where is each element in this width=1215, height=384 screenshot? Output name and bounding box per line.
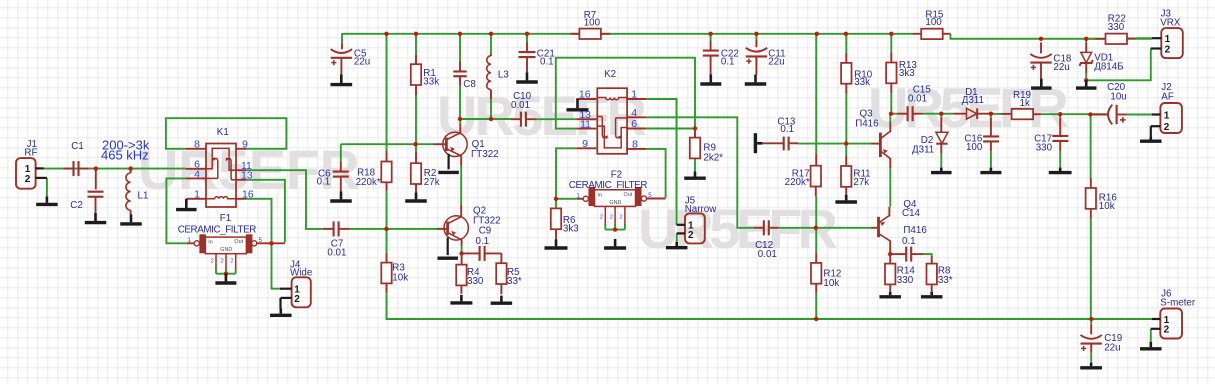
resistor R3 xyxy=(386,253,388,263)
svg-text:2: 2 xyxy=(610,214,613,220)
svg-text:11: 11 xyxy=(580,118,591,130)
svg-text:GND: GND xyxy=(220,247,232,253)
resistor R4 xyxy=(461,253,463,264)
wire VD1 node to J3 pin2 xyxy=(1086,49,1151,81)
node rail C8 xyxy=(458,32,462,36)
wire C22 top xyxy=(710,34,712,41)
ground J6 pin2 xyxy=(1150,342,1153,347)
wire F1 gnd stems green xyxy=(215,268,217,274)
wire C17 top lead xyxy=(1059,114,1061,118)
wire F2 in node xyxy=(556,198,578,200)
svg-text:RF: RF xyxy=(24,148,37,159)
svg-text:33*: 33* xyxy=(938,275,953,286)
svg-text:3k3: 3k3 xyxy=(899,68,915,79)
svg-text:2: 2 xyxy=(25,174,31,185)
wire Q1 emitter to Q2 collector xyxy=(460,166,462,205)
wire C13 to Q3 base xyxy=(798,143,871,145)
node F1 out junction xyxy=(269,241,273,245)
wire R3 top xyxy=(386,229,388,253)
connector J4 xyxy=(292,277,311,307)
node D1 cathode C16 xyxy=(989,112,993,116)
svg-text:465 kHz: 465 kHz xyxy=(101,148,149,163)
svg-text:0.1: 0.1 xyxy=(721,57,735,68)
capacitor C8 xyxy=(459,62,461,72)
svg-text:0.01: 0.01 xyxy=(908,93,927,104)
node rail R17 xyxy=(815,32,819,36)
wire rail top main xyxy=(342,33,913,35)
resistor R7 xyxy=(570,33,579,35)
svg-text:Wide: Wide xyxy=(290,268,313,279)
wire F2 gnd bus xyxy=(605,229,625,231)
transistor Q1 shield pin to ground xyxy=(448,154,450,170)
wire Q3 emitter up xyxy=(889,114,891,123)
resistor R16 xyxy=(1090,178,1092,188)
ground C18 xyxy=(1040,79,1043,87)
resistor R9 xyxy=(694,129,696,138)
connector J6 xyxy=(1160,309,1182,339)
wire Q3 collector to Q4 emitter xyxy=(889,169,891,207)
ground K2 pin16 xyxy=(576,99,579,108)
svg-text:1: 1 xyxy=(631,89,637,101)
wire R1 top xyxy=(415,34,417,54)
capacitor C10 xyxy=(511,118,521,120)
svg-text:220k*: 220k* xyxy=(356,177,381,188)
svg-text:2: 2 xyxy=(221,259,224,265)
transistor Q2 GT322 xyxy=(444,216,468,240)
resistor R19 xyxy=(1001,113,1012,115)
ground C2 xyxy=(94,213,97,221)
wire R17 column xyxy=(815,34,817,154)
ground R11 xyxy=(845,195,848,200)
svg-text:3k3: 3k3 xyxy=(563,223,579,234)
wire C10 to K2 pin13 xyxy=(536,118,576,120)
svg-text:S-meter: S-meter xyxy=(1160,298,1196,309)
node rail C11 xyxy=(754,32,758,36)
wire C19 top lead xyxy=(1090,319,1092,324)
svg-text:Out: Out xyxy=(624,192,633,198)
svg-text:6: 6 xyxy=(631,118,637,130)
svg-text:22u: 22u xyxy=(1053,62,1069,73)
svg-text:33k: 33k xyxy=(423,77,439,88)
resistor R1 xyxy=(415,54,417,64)
svg-text:In: In xyxy=(597,192,602,198)
relay K1 xyxy=(206,144,236,208)
ground J4 pin2 xyxy=(279,309,282,314)
svg-text:10u: 10u xyxy=(1110,92,1126,103)
capacitor C9 xyxy=(462,252,480,254)
svg-text:330: 330 xyxy=(1108,22,1125,33)
svg-text:UR5EFR: UR5EFR xyxy=(437,84,647,147)
svg-text:22u: 22u xyxy=(354,56,370,67)
svg-text:33k: 33k xyxy=(854,77,870,88)
ground R6 xyxy=(555,240,558,247)
wire R10 bottom to base dot xyxy=(845,94,847,144)
wire main input J1-C1-K1 pin6 xyxy=(44,168,186,170)
ground C17 xyxy=(1059,168,1062,171)
resistor R14 xyxy=(889,254,891,264)
ground D2 xyxy=(940,168,943,171)
svg-text:2k2*: 2k2* xyxy=(703,153,723,164)
svg-text:100: 100 xyxy=(584,18,601,29)
svg-text:K2: K2 xyxy=(604,69,616,80)
relay K2 xyxy=(597,88,627,154)
ground VD1 xyxy=(1085,80,1088,86)
svg-text:K1: K1 xyxy=(217,127,229,138)
svg-text:2: 2 xyxy=(688,230,694,241)
wire VD1 top lead xyxy=(1085,39,1087,43)
node F1 gnd junction xyxy=(224,272,228,276)
node F2 in junction R6 xyxy=(554,197,558,201)
ground R14 xyxy=(889,292,892,295)
svg-text:27k: 27k xyxy=(853,177,869,188)
svg-text:L3: L3 xyxy=(498,70,509,81)
connector J1 xyxy=(16,158,36,189)
wire D1 to R19 xyxy=(991,113,1001,115)
svg-text:100: 100 xyxy=(925,17,942,28)
capacitor C1 xyxy=(64,168,74,170)
wire C17 bottom xyxy=(1059,151,1061,168)
wire R17 bottom to Q4 base node xyxy=(815,196,817,228)
ground F1 xyxy=(225,274,228,282)
svg-text:10k: 10k xyxy=(392,272,408,283)
wire K1 pin8 loop to pin9 xyxy=(166,118,287,149)
svg-text:16: 16 xyxy=(579,89,591,101)
ground F2 xyxy=(614,239,617,247)
wire rail step right of R15 xyxy=(951,34,1153,39)
wire R1 bottom to base dot xyxy=(415,95,417,144)
svg-text:0.1: 0.1 xyxy=(476,236,490,247)
wire C8 top xyxy=(459,34,461,62)
svg-text:330: 330 xyxy=(897,275,914,286)
connector J3 xyxy=(1161,28,1183,58)
svg-text:GND: GND xyxy=(609,200,621,206)
node D2 anode xyxy=(939,112,943,116)
wire R16 top xyxy=(1090,115,1092,179)
capacitor C6 xyxy=(340,162,342,172)
node supply C18 xyxy=(1039,37,1043,41)
ground J5 pin2 xyxy=(675,242,678,246)
svg-text:10k: 10k xyxy=(1099,201,1115,212)
svg-text:C1: C1 xyxy=(71,141,84,152)
resistor R5 xyxy=(500,253,502,263)
ground C19 xyxy=(1090,363,1093,367)
svg-text:2: 2 xyxy=(1165,44,1171,55)
wire J1 pin2 to ground xyxy=(46,178,48,197)
wire C19 bottom xyxy=(1090,353,1092,363)
ground J2 pin2 xyxy=(1150,137,1153,140)
ground C6 xyxy=(340,191,343,199)
node Q3 emitter junction C15 xyxy=(889,112,893,116)
wire C15 node leads xyxy=(891,113,898,115)
svg-text:2: 2 xyxy=(620,214,623,220)
wire K1 pin11 to C7 xyxy=(246,170,323,229)
wire C16 bottom xyxy=(990,151,992,168)
node Q1 base junction xyxy=(413,142,417,146)
svg-text:27k: 27k xyxy=(424,177,440,188)
svg-text:F2: F2 xyxy=(611,169,622,180)
capacitor C19 electrolytic xyxy=(1090,324,1092,334)
svg-text:2: 2 xyxy=(600,214,603,220)
node F2 gnd junction xyxy=(613,227,617,231)
wire K2 pin8 to F2 out xyxy=(646,149,665,198)
svg-text:2: 2 xyxy=(294,294,300,305)
wire K2 pin9 down to F2 in xyxy=(556,148,576,199)
diode D2 D311 xyxy=(940,117,942,132)
capacitor C17 xyxy=(1059,118,1061,136)
transistor Q1 GT322 xyxy=(443,132,467,156)
svg-text:2: 2 xyxy=(211,259,214,265)
transistor Q4 P416 xyxy=(871,227,877,229)
wire C8 bottom to node xyxy=(459,86,461,119)
wire R13 bottom to C15 node xyxy=(890,93,892,113)
node C20 junction R16 xyxy=(1088,112,1092,116)
svg-text:Д311: Д311 xyxy=(962,95,984,106)
svg-text:16: 16 xyxy=(242,189,254,201)
node Q2 base junction R18-R3 xyxy=(384,227,388,231)
node C17 junction xyxy=(1058,112,1062,116)
svg-text:13: 13 xyxy=(241,170,253,182)
ground C21 xyxy=(526,73,529,81)
node S-meter line R12 xyxy=(814,317,818,321)
inductor L3 xyxy=(490,54,492,56)
wire D2 anode lead xyxy=(940,114,942,118)
wire R6 top xyxy=(555,199,557,209)
wire C15 to D2 node xyxy=(923,113,942,115)
wire C14 to R8 xyxy=(924,254,932,256)
svg-text:0.1: 0.1 xyxy=(317,177,331,188)
svg-text:2: 2 xyxy=(230,259,233,265)
node Q4 collector junction xyxy=(888,252,892,256)
resistor R15 xyxy=(913,33,922,35)
svg-text:1: 1 xyxy=(194,189,200,201)
wire R22 to J3 pin1 xyxy=(1135,37,1152,39)
svg-text:8: 8 xyxy=(632,139,638,151)
wire K2 pin11 loop over to R9 xyxy=(556,58,695,129)
wire D2 cathode to ground xyxy=(940,154,942,168)
wire R10 top xyxy=(845,34,847,53)
resistor R12 xyxy=(815,253,817,263)
ground C13 sideways xyxy=(754,133,757,153)
ground C16 xyxy=(990,168,993,171)
svg-text:220k*: 220k* xyxy=(785,177,810,188)
capacitor C11 electrolytic xyxy=(755,40,757,47)
wire K2 pin4 to C12 xyxy=(646,117,754,228)
transistor Q3 P416 xyxy=(871,143,879,145)
svg-text:UR5EFR: UR5EFR xyxy=(868,76,1069,139)
svg-text:2: 2 xyxy=(1164,122,1170,133)
ground J1 pin2 xyxy=(46,197,49,203)
svg-text:1: 1 xyxy=(1164,110,1170,121)
ceramic filter F1 xyxy=(205,237,246,254)
resistor R8 xyxy=(931,256,933,264)
ground R5 xyxy=(500,296,503,302)
ceramic filter F2 xyxy=(595,190,636,207)
svg-text:ГТ322: ГТ322 xyxy=(471,149,499,160)
node rail R18 xyxy=(384,32,388,36)
wire F2 gnd stems green xyxy=(604,224,606,230)
ground C22 xyxy=(709,75,712,83)
wire K2 pin6 to R9 node xyxy=(646,128,695,130)
svg-text:9: 9 xyxy=(582,138,588,150)
resistor R18 xyxy=(386,151,388,162)
svg-text:F1: F1 xyxy=(220,213,231,224)
svg-text:In: In xyxy=(208,240,213,246)
capacitor C15 xyxy=(898,113,908,115)
wire R18 bottom to Q2 base node xyxy=(386,191,388,229)
connector J2 xyxy=(1160,103,1182,133)
capacitor C7 xyxy=(323,228,333,230)
node rail L3 xyxy=(489,32,493,36)
wire R12 top xyxy=(815,228,817,253)
svg-text:10k: 10k xyxy=(823,278,839,289)
resistor R22 xyxy=(1095,38,1105,40)
wire F1 gnd bus xyxy=(216,273,236,275)
wire R9 bottom xyxy=(694,159,696,172)
wire rail corner to C5 xyxy=(341,33,343,43)
svg-text:C9: C9 xyxy=(479,226,492,237)
resistor R10 xyxy=(845,53,847,63)
node supply VD1 xyxy=(1084,37,1088,41)
wire C20 to J2 pin1 xyxy=(1127,114,1153,116)
wire K1 pin4 to F1 in xyxy=(166,178,186,243)
relay K1 internal contacts xyxy=(206,148,236,198)
capacitor C22 xyxy=(710,41,712,51)
ground R9 xyxy=(694,172,697,177)
svg-text:330: 330 xyxy=(467,276,484,287)
svg-text:П416: П416 xyxy=(855,119,879,130)
svg-text:4: 4 xyxy=(194,168,200,180)
resistor R2 xyxy=(415,152,417,164)
svg-text:VRX: VRX xyxy=(1160,17,1181,28)
node K2 pin6 R9 junction xyxy=(693,126,697,130)
wire J5 pin2 ground drop xyxy=(676,233,678,242)
resistor R13 xyxy=(890,53,892,63)
wire L3 bottom to node xyxy=(490,100,492,119)
node rail R10 xyxy=(844,32,848,36)
capacitor C21 xyxy=(526,42,528,52)
svg-text:AF: AF xyxy=(1161,92,1174,103)
resistor R17 xyxy=(815,154,817,166)
capacitor C2 xyxy=(95,169,97,190)
node S-meter line C19-R16 xyxy=(1089,317,1093,321)
svg-text:C8: C8 xyxy=(463,79,476,90)
svg-text:CERAMIC_FILTER: CERAMIC_FILTER xyxy=(178,225,257,236)
wire J6 pin2 drop xyxy=(1150,329,1152,342)
svg-text:Д311: Д311 xyxy=(912,145,934,156)
wire K2 pin1 to J5 xyxy=(646,99,676,225)
capacitor C18 electrolytic xyxy=(1040,42,1042,53)
diode D1 D311 xyxy=(953,113,966,115)
capacitor C14 xyxy=(890,253,906,255)
wire R3 bottom to S-meter line xyxy=(387,293,1153,319)
wire R22 left lead xyxy=(1086,38,1095,40)
svg-text:C2: C2 xyxy=(70,200,83,211)
capacitor C5 xyxy=(341,44,343,50)
zener diode VD1 D814B xyxy=(1085,42,1087,52)
node IF node L3 xyxy=(489,117,493,121)
node Q3 base junction R10-R11 xyxy=(844,141,848,145)
svg-text:1k: 1k xyxy=(1020,98,1030,109)
svg-text:Out: Out xyxy=(234,239,243,245)
wire R2 top xyxy=(415,144,417,151)
svg-text:33*: 33* xyxy=(507,276,522,287)
wire C16 top lead xyxy=(990,114,992,118)
node rail C21 xyxy=(525,32,529,36)
node VD1 cathode gnd junction xyxy=(1084,78,1088,82)
svg-text:0.01: 0.01 xyxy=(511,100,530,111)
wire R12 bottom to S-meter line xyxy=(815,293,817,320)
node Q2 emitter junction xyxy=(459,251,463,255)
svg-text:0.1: 0.1 xyxy=(780,124,794,135)
wire R13 top xyxy=(890,34,892,53)
wire R11 top xyxy=(845,144,847,156)
svg-text:2: 2 xyxy=(1164,325,1170,336)
svg-text:П416: П416 xyxy=(903,225,927,236)
wire Q1 base node xyxy=(341,144,434,161)
svg-text:4: 4 xyxy=(631,107,637,119)
resistor R6 xyxy=(551,208,561,229)
resistor R11 xyxy=(845,156,847,166)
wire node C8-L3-C10 xyxy=(460,118,511,120)
node IF node C8 xyxy=(458,117,462,121)
capacitor C13 xyxy=(762,142,783,144)
capacitor C20 electrolytic xyxy=(1090,114,1107,116)
wire VD1 bottom node xyxy=(1085,73,1087,80)
wire D2 node to D1 xyxy=(941,113,953,115)
svg-text:C14: C14 xyxy=(902,208,921,219)
node Q4 base junction R17-R12 xyxy=(814,226,818,230)
inductor L1 xyxy=(130,169,132,173)
svg-text:CERAMIC_FILTER: CERAMIC_FILTER xyxy=(569,180,648,191)
wire K1 pin16 to J4 pin1 via F1 out xyxy=(246,199,280,289)
relay K2 internal contacts xyxy=(597,97,627,147)
ground R2 xyxy=(415,193,418,200)
svg-text:9: 9 xyxy=(242,139,248,151)
node rail C22 xyxy=(708,32,712,36)
wire C7 to Q2 base xyxy=(349,228,437,230)
svg-text:0.1: 0.1 xyxy=(540,56,554,67)
svg-text:Narrow: Narrow xyxy=(685,204,717,215)
svg-text:0.01: 0.01 xyxy=(327,248,346,259)
wire C11 top xyxy=(755,34,757,40)
ground R4 xyxy=(460,295,463,301)
svg-text:0.01: 0.01 xyxy=(758,249,777,260)
wire R19 to C20 xyxy=(1041,113,1106,115)
ground C11 xyxy=(754,75,757,83)
svg-text:22u: 22u xyxy=(768,57,784,68)
wire R18 column top xyxy=(386,34,388,151)
ground L1 xyxy=(130,215,133,223)
wire Q1 collector to node xyxy=(459,119,461,124)
capacitor C12 xyxy=(754,227,764,229)
connector J5 xyxy=(685,213,705,243)
ground R8 xyxy=(930,292,933,295)
ground C5 xyxy=(340,75,343,84)
wire L3 top xyxy=(490,34,492,54)
svg-text:22u: 22u xyxy=(1104,342,1120,353)
node main input junction L1 xyxy=(128,166,132,170)
svg-text:Д814Б: Д814Б xyxy=(1094,61,1123,72)
svg-text:8: 8 xyxy=(194,139,200,151)
wire C12 to Q4 base xyxy=(778,227,871,229)
svg-text:100: 100 xyxy=(966,142,983,153)
node main input junction C2 xyxy=(94,166,98,170)
wire C21 top xyxy=(526,34,528,42)
wire R16 bottom to S-meter line xyxy=(1090,219,1092,319)
svg-text:0.1: 0.1 xyxy=(902,236,916,247)
node rail R1 xyxy=(414,32,418,36)
svg-text:L1: L1 xyxy=(138,191,149,202)
